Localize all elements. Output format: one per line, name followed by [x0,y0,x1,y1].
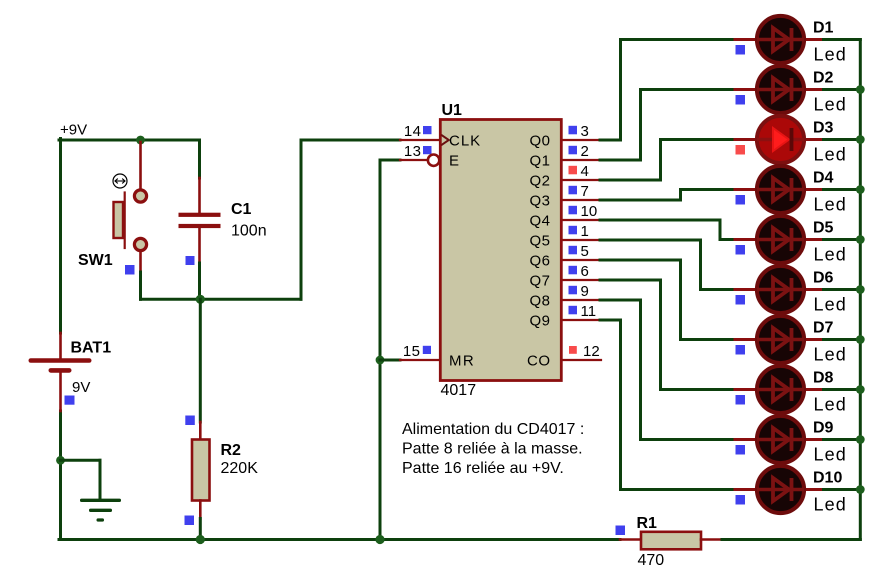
resistor R1 origin marker [616,526,626,536]
pin 15 stub (MR) [400,359,440,361]
wire Q6 to D7 horizontal from pin [600,259,681,262]
svg-text:Led: Led [814,195,847,215]
switch SW1 origin marker [125,265,135,275]
wire Q1 to D2 vertical [639,90,642,161]
svg-text:Led: Led [814,45,847,65]
svg-text:E: E [449,153,459,170]
LED D10 anode pin [735,488,757,491]
capacitor C1 bottom wire [198,263,201,299]
switch SW1 contact bar [124,193,126,249]
pin 1 marker [569,226,578,235]
capacitor C1 top plate [179,213,221,217]
pin 15 marker [423,346,431,354]
svg-text:D8: D8 [813,370,834,387]
pin 2 marker [569,146,578,155]
pin 6 marker [569,266,578,275]
pin 3 marker [569,126,578,135]
switch SW1 top terminal [134,190,146,202]
pin 11 marker [569,306,578,315]
wire Q7 to D8 horizontal from pin [600,279,661,282]
LED D9 body [757,416,804,463]
wire Q5 to D6 horizontal to LED [701,288,736,291]
svg-text:SW1: SW1 [78,252,113,269]
svg-text:Led: Led [814,245,847,265]
junction MR tap [376,356,385,365]
LED D5 state marker [736,245,746,255]
svg-text:CLK: CLK [449,133,481,150]
LED D10 cathode pin [804,488,824,491]
wire Q9 to D10 vertical [619,320,622,490]
wire Q9 to D10 horizontal from pin [600,319,621,322]
wire D9 cathode to right rail [824,438,861,441]
wire Q4 to D5 horizontal to LED [720,238,735,241]
wire Q3 to D4 horizontal from pin [600,199,681,202]
switch SW1 button body [114,202,124,238]
wire Q8 to D9 horizontal to LED [641,438,736,441]
LED D6 cathode pin [804,288,824,291]
LED D4 anode pin [735,188,757,191]
LED D5 anode pin [735,238,757,241]
LED D7 body [757,316,804,363]
capacitor C1 top wire [198,140,201,178]
svg-text:3: 3 [581,123,589,140]
resistor R1 right pin [701,538,722,541]
wire ground branch vertical [99,460,102,499]
wire D3 cathode to right rail [824,138,861,141]
LED D4 body [757,166,804,213]
wire D4 cathode to right rail [824,188,861,191]
LED D1 anode pin [735,38,757,41]
LED D10 body [757,466,804,513]
wire D7 cathode to right rail [824,338,861,341]
pin 3 stub (Q0) [562,139,600,141]
svg-text:6: 6 [581,263,589,280]
svg-text:7: 7 [581,183,589,200]
LED D4 cathode pin [804,188,824,191]
pin 7 stub (Q3) [562,199,600,201]
svg-text:Q1: Q1 [529,153,550,170]
battery BAT1 positive pin [59,333,62,358]
pin 11 stub (Q9) [562,319,600,321]
svg-text:Q6: Q6 [529,253,550,270]
pin 12 stub (CO) [562,359,601,361]
svg-text:Led: Led [814,145,847,165]
pin 12 marker [569,346,577,354]
svg-text:Led: Led [814,295,847,315]
pin 10 stub (Q4) [562,219,600,221]
svg-text:15: 15 [403,343,421,360]
resistor R2 bottom wire [199,519,202,540]
U1 enable bubble pin 13 [428,155,439,166]
pin 5 marker [569,246,578,255]
switch SW1 bottom pin [139,251,142,272]
svg-text:+9V: +9V [60,122,87,139]
LED D2 anode pin [735,88,757,91]
LED D1 cathode pin [804,38,824,41]
junction right rail D9 [856,435,865,444]
svg-text:14: 14 [404,123,422,140]
resistor R2 bottom pin [199,501,202,519]
wire D5 cathode to right rail [824,238,861,241]
LED D7 state marker [736,345,746,355]
svg-text:Patte 16 reliée au +9V.: Patte 16 reliée au +9V. [402,460,564,477]
wire E net horizontal [380,159,400,162]
wire Q3 to D4 vertical [679,190,682,201]
wire ground branch horizontal [61,459,101,462]
battery BAT1 short plate [49,368,72,373]
wire Q2 to D3 vertical [659,140,662,181]
wire D8 cathode to right rail [824,388,861,391]
svg-text:1: 1 [581,223,589,240]
svg-text:Q3: Q3 [529,193,550,210]
pin 13 stub (E) [400,159,428,161]
wire Q8 to D9 horizontal from pin [600,299,641,302]
svg-text:Q9: Q9 [529,313,550,330]
capacitor C1 top pin [198,178,201,213]
pin 10 marker [569,206,578,215]
wire D2 cathode to right rail [824,88,861,91]
battery BAT1 long plate [29,358,92,363]
svg-text:D10: D10 [813,470,842,487]
svg-text:Q4: Q4 [529,213,550,230]
wire Q1 to D2 horizontal to LED [641,88,736,91]
svg-text:D4: D4 [813,170,834,187]
ground symbol [80,499,121,522]
svg-text:Q8: Q8 [529,293,550,310]
annotation text block [402,421,584,477]
junction right rail D5 [856,235,865,244]
junction right rail D8 [856,385,865,394]
pin 14 stub (CLK) [400,139,440,141]
svg-text:12: 12 [583,343,600,360]
svg-text:Patte 8 reliée à la masse.: Patte 8 reliée à la masse. [402,441,583,458]
junction +9V / SW1 node [136,136,145,145]
wire Q5 to D6 horizontal from pin [600,239,701,242]
svg-text:U1: U1 [442,102,463,119]
svg-text:220K: 220K [221,460,259,477]
wire CLK vertical from RC node [300,140,303,299]
wire RC node horizontal [141,298,302,301]
svg-text:Led: Led [814,345,847,365]
capacitor C1 bottom pin [198,228,201,263]
LED D9 cathode pin [804,438,824,441]
svg-text:MR: MR [449,353,475,370]
LED D6 anode pin [735,288,757,291]
svg-text:R2: R2 [221,442,242,459]
switch SW1 bottom terminal [134,238,146,250]
pin 1 stub (Q5) [562,239,600,241]
junction right rail D3 [856,135,865,144]
wire D1 cathode to right rail [824,38,861,41]
wire right cathode rail [859,40,862,540]
svg-text:D2: D2 [813,70,834,87]
wire Q9 to D10 horizontal to LED [621,488,736,491]
wire Q5 to D6 vertical [699,240,702,290]
svg-text:2: 2 [581,143,589,160]
LED D3 state marker [736,145,746,155]
LED D4 state marker [736,195,746,205]
pin 6 stub (Q7) [562,279,600,281]
LED D7 anode pin [735,338,757,341]
resistor R2 top wire [199,299,202,422]
pin 9 stub (Q8) [562,299,600,301]
wire Q0 to D1 horizontal from pin [600,139,621,142]
resistor R2 top pin [199,422,202,440]
svg-text:10: 10 [581,203,598,220]
svg-text:C1: C1 [231,201,252,218]
svg-text:CO: CO [527,353,551,370]
svg-text:13: 13 [404,143,422,160]
junction R2 / ground rail [196,535,205,544]
svg-text:Led: Led [814,445,847,465]
svg-text:Q0: Q0 [529,133,550,150]
wire E/MR vertical to ground rail [379,160,382,540]
LED D7 cathode pin [804,338,824,341]
resistor R2 body [192,440,210,501]
LED D8 state marker [736,395,746,405]
svg-text:Q7: Q7 [529,273,550,290]
wire Q6 to D7 horizontal to LED [681,338,736,341]
capacitor C1 bottom plate [179,224,221,228]
LED D8 cathode pin [804,388,824,391]
svg-text:R1: R1 [637,515,658,532]
resistor R2 origin marker top [185,416,195,426]
pin 13 marker [423,146,432,154]
wire left rail lower (battery -) [59,411,62,539]
junction right rail D2 [856,85,865,94]
svg-text:9V: 9V [72,379,90,396]
U1 clock chevron [441,135,449,145]
wire Q2 to D3 horizontal to LED [661,138,736,141]
switch SW1 actuator symbol [113,174,127,188]
wire left rail upper (battery +) [59,139,62,334]
svg-text:470: 470 [638,552,665,569]
LED D2 state marker [736,95,746,105]
svg-text:D7: D7 [813,320,834,337]
wire R1 to right rail [722,538,860,541]
wire D6 cathode to right rail [824,288,861,291]
pin 7 marker [569,186,578,195]
junction E/MR net at ground rail [375,535,384,544]
pin 4 stub (Q2) [562,179,600,181]
svg-text:Led: Led [814,395,847,415]
resistor R1 body [641,532,701,550]
wire Q2 to D3 horizontal from pin [600,179,661,182]
LED D3 anode pin [735,138,757,141]
svg-text:Led: Led [814,495,847,515]
pin 4 marker [569,166,578,175]
wire D10 cathode to right rail [824,488,861,491]
LED D1 body [757,16,804,63]
svg-text:9: 9 [581,283,589,300]
capacitor C1 origin marker [186,256,195,265]
svg-text:Q2: Q2 [529,173,550,190]
svg-text:4: 4 [581,163,589,180]
svg-text:D5: D5 [813,220,834,237]
svg-text:100n: 100n [231,223,267,240]
svg-text:Alimentation du CD4017 :: Alimentation du CD4017 : [402,421,584,438]
LED D9 state marker [736,445,746,455]
battery BAT1 negative pin [59,373,62,412]
wire Q1 to D2 horizontal from pin [600,159,641,162]
LED D3 body [757,116,804,163]
LED D10 state marker [736,495,746,505]
wire Q4 to D5 horizontal from pin [600,219,720,222]
wire Q0 to D1 vertical [619,40,622,141]
LED D6 state marker [736,295,746,305]
wire Q8 to D9 vertical [639,300,642,440]
wire Q6 to D7 vertical [679,260,682,340]
wire Q7 to D8 vertical [659,280,662,390]
wire bottom ground rail [59,538,620,541]
LED D2 body [757,66,804,113]
svg-text:D6: D6 [813,270,834,287]
wire +9V top rail [59,139,199,142]
wire SW1 to RC node vertical [139,272,142,299]
wire MR horizontal [380,359,400,362]
pin 9 marker [569,286,578,295]
LED D8 body [757,366,804,413]
junction right rail D7 [856,335,865,344]
wire Q0 to D1 horizontal to LED [621,38,736,41]
svg-text:D1: D1 [813,20,834,37]
wire Q4 to D5 vertical [719,220,722,240]
wire Q7 to D8 horizontal to LED [661,388,736,391]
junction right rail D4 [856,185,865,194]
svg-text:4017: 4017 [441,382,477,399]
svg-text:BAT1: BAT1 [71,340,112,357]
junction battery-ground node [56,456,65,465]
LED D6 body [757,266,804,313]
LED D9 anode pin [735,438,757,441]
LED D3 cathode pin [804,138,824,141]
junction right rail D6 [856,285,865,294]
svg-text:5: 5 [581,243,589,260]
svg-text:Q5: Q5 [529,233,550,250]
svg-text:Led: Led [814,95,847,115]
LED D5 cathode pin [804,238,824,241]
LED D2 cathode pin [804,88,824,91]
battery BAT1 origin marker [65,396,75,405]
svg-text:11: 11 [581,303,597,320]
pin 2 stub (Q1) [562,159,600,161]
junction RC node (SW1/C1/R2/CLK) [196,295,205,304]
wire Q3 to D4 horizontal to LED [681,188,736,191]
resistor R2 origin marker bottom [185,516,195,526]
pin 5 stub (Q6) [562,259,600,261]
op-amp U1 4017 body [440,120,561,381]
LED D8 anode pin [735,388,757,391]
svg-text:D3: D3 [813,120,834,137]
resistor R1 left pin [620,538,641,541]
wire CLK horizontal to pin 14 [301,139,400,142]
pin 14 marker [423,126,432,134]
LED D5 body [757,216,804,263]
svg-text:D9: D9 [813,420,834,437]
switch SW1 top pin [139,142,142,189]
junction right rail D10 [856,485,865,494]
LED D1 state marker [736,45,746,55]
